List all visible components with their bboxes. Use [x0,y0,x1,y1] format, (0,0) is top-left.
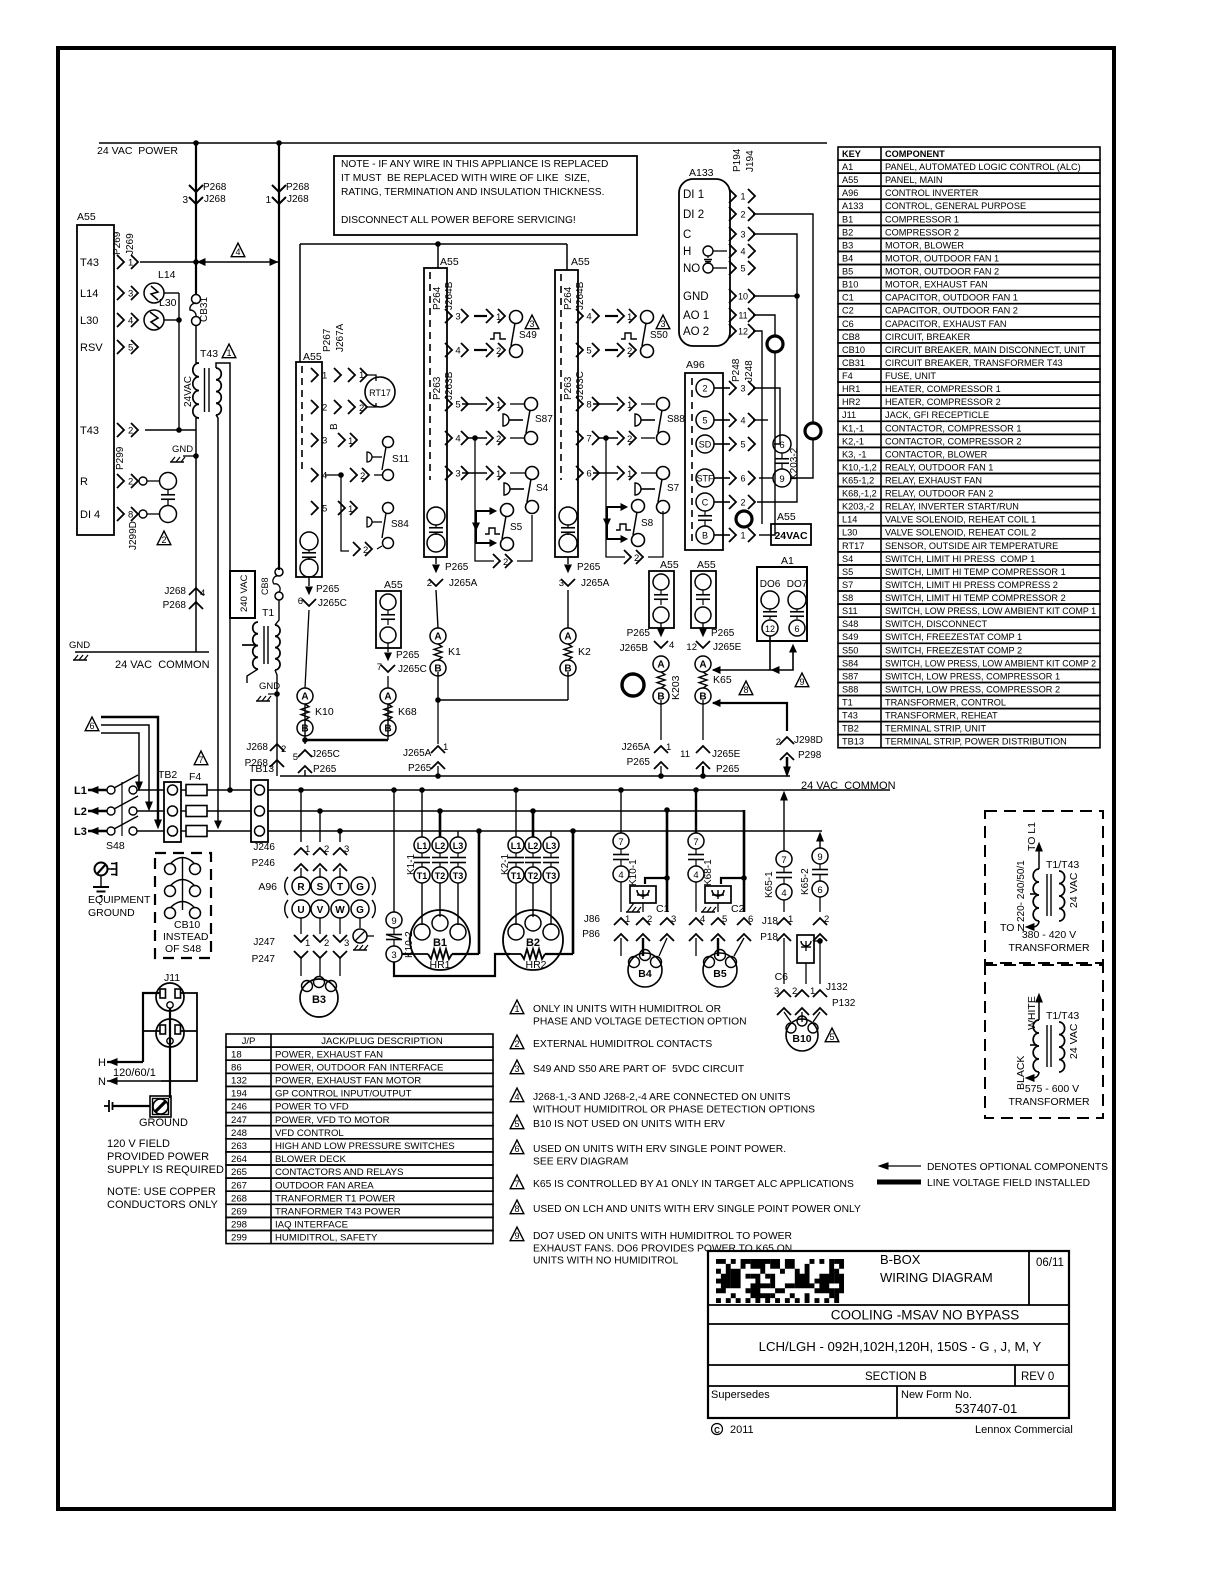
svg-text:3: 3 [774,986,779,997]
svg-text:9: 9 [817,852,822,863]
connector A96 pin 3 [714,387,730,389]
wire S5 to chevron2 [475,544,494,561]
svg-text:J299D: J299D [128,521,139,550]
switch S48 pole L3 [107,827,115,835]
svg-text:3: 3 [344,938,349,949]
wire CB8 to T1 [275,600,279,625]
svg-text:C: C [702,498,709,508]
svg-text:3: 3 [344,844,349,855]
svg-text:S5: S5 [510,522,523,533]
svg-text:5: 5 [322,504,327,515]
svg-text:J268: J268 [164,586,186,597]
svg-text:TO L1: TO L1 [1026,822,1038,851]
connector K1 J265A-1/P265 [431,746,445,753]
svg-text:J246: J246 [253,842,275,853]
connector A133 pin 4 [729,244,736,258]
svg-text:P18: P18 [760,932,778,943]
terminal A96 5 [696,411,714,429]
svg-text:2: 2 [496,346,501,357]
svg-text:8: 8 [586,400,591,411]
ground plug symbol [104,1105,109,1107]
wire A133 pin3 [753,234,797,502]
svg-text:GROUND: GROUND [88,907,135,919]
svg-text:J267A: J267A [335,323,346,352]
svg-text:T43: T43 [842,711,858,721]
wire K1 bottom [437,672,439,700]
note triangle 7 [510,1175,524,1189]
svg-text:3: 3 [182,195,188,206]
svg-text:S50: S50 [650,330,668,341]
svg-text:CAPACITOR, OUTDOOR FAN 1: CAPACITOR, OUTDOOR FAN 1 [885,293,1018,303]
svg-text:5: 5 [128,343,133,354]
wire horizontal y244 [300,243,567,245]
svg-text:5: 5 [740,440,745,450]
connector A96 pin 2 [714,501,730,503]
svg-text:L30: L30 [159,297,177,309]
terminal A96 2 [696,379,714,397]
svg-text:5: 5 [702,416,707,426]
svg-text:132: 132 [231,1076,247,1087]
wire K1-K2 link [438,699,568,701]
svg-text:P264: P264 [432,286,443,310]
svg-text:P246: P246 [252,858,276,869]
svg-text:CB8: CB8 [842,332,860,342]
svg-text:4: 4 [586,312,591,323]
terminal A96 STF [696,469,714,487]
svg-text:1: 1 [265,195,271,206]
svg-text:S87: S87 [842,671,858,681]
svg-text:A96: A96 [686,359,705,371]
svg-text:264: 264 [231,1154,248,1165]
svg-text:GND: GND [259,681,280,692]
wire T1 right bottom down [275,670,277,776]
svg-text:120 V FIELD: 120 V FIELD [107,1138,170,1150]
svg-text:L30: L30 [842,528,857,538]
svg-text:A55: A55 [842,175,858,185]
svg-text:K1,-1: K1,-1 [842,423,864,433]
svg-text:S84: S84 [842,658,858,668]
svg-text:POWER, EXHAUST FAN: POWER, EXHAUST FAN [275,1049,383,1060]
relay coil K1 [430,628,446,644]
svg-text:REALY, OUTDOOR FAN 1: REALY, OUTDOOR FAN 1 [885,462,993,472]
svg-text:6: 6 [748,914,753,925]
svg-text:MOTOR, OUTDOOR FAN 1: MOTOR, OUTDOOR FAN 1 [885,253,999,263]
switch S48 tie [121,782,123,836]
svg-text:T1: T1 [417,871,428,881]
svg-text:CAPACITOR, OUTDOOR FAN 2: CAPACITOR, OUTDOOR FAN 2 [885,306,1018,316]
svg-text:SWITCH, LIMIT HI TEMP COMPRESS: SWITCH, LIMIT HI TEMP COMPRESSOR 2 [885,593,1066,603]
svg-text:POWER, VFD TO MOTOR: POWER, VFD TO MOTOR [275,1115,390,1126]
wire bar1 to K1 [436,590,438,628]
connector bar2 pin 6 [576,466,583,480]
svg-text:GND: GND [683,291,709,303]
ground terminal square [150,1096,171,1117]
triangle note 7 [194,751,208,765]
connector K65 J265E-11/P265 [702,700,704,740]
svg-text:1: 1 [740,531,745,541]
svg-text:5: 5 [740,264,745,274]
svg-text:STF: STF [697,474,715,484]
svg-text:TB13: TB13 [842,737,864,747]
wire middle bar to K10 [305,610,309,688]
connector A133 pin 10 [729,289,736,303]
wire T43 secondary top to x230 [216,363,230,571]
svg-text:P268: P268 [286,182,310,193]
wire L1 bus [137,789,164,791]
switch S84 [338,501,345,515]
svg-text:3: 3 [455,469,460,480]
wire CB31 to T43 [195,325,197,363]
wire K2-1 feeds [513,787,519,793]
switch S8 circuit [632,500,645,513]
svg-text:S49: S49 [842,632,858,642]
triangle note 4 [231,243,245,257]
svg-text:AO 1: AO 1 [683,310,709,322]
wire J246-3 drop [337,828,343,834]
copyright [712,1424,723,1435]
connector bar2 pin 5 [576,343,583,357]
svg-text:7: 7 [781,855,786,866]
wire HR2 right up L3 [572,831,575,954]
svg-text:P194: P194 [732,148,743,172]
connector J298D-2/P298 [780,737,794,744]
svg-text:7: 7 [618,837,623,848]
svg-text:J298D: J298D [794,735,823,746]
svg-text:2: 2 [647,914,652,925]
svg-text:VALVE SOLENOID, REHEAT COIL 1: VALVE SOLENOID, REHEAT COIL 1 [885,515,1036,525]
circuit breaker CB8 [275,568,283,576]
svg-text:T43: T43 [200,348,218,360]
note triangle 8 [510,1200,524,1214]
legend optional components [886,1165,921,1167]
svg-text:24VAC: 24VAC [183,376,194,407]
svg-text:5: 5 [722,914,727,925]
wire L3 bus [137,830,164,832]
svg-text:2: 2 [514,1039,519,1049]
svg-text:A1: A1 [781,555,794,567]
svg-text:L3: L3 [74,826,87,838]
svg-text:248: 248 [231,1128,247,1139]
switch S88 circuit [593,403,618,405]
svg-text:A: A [657,660,664,671]
svg-text:SWITCH, LOW PRESS, COMPRESSOR: SWITCH, LOW PRESS, COMPRESSOR 2 [885,684,1060,694]
svg-text:HEATER, COMPRESSOR 2: HEATER, COMPRESSOR 2 [885,397,1001,407]
wire J246-1 drop [298,787,304,793]
svg-text:V: V [317,905,324,916]
svg-text:K1: K1 [448,646,461,658]
svg-text:EXTERNAL HUMIDITROL CONTACTS: EXTERNAL HUMIDITROL CONTACTS [533,1039,712,1050]
svg-text:3: 3 [740,230,745,240]
note triangle 9 [510,1227,524,1241]
svg-text:1: 1 [496,312,501,323]
connector bar2 pin 7 [576,431,583,445]
svg-text:K2: K2 [578,646,591,658]
svg-text:A55: A55 [571,256,590,268]
svg-text:A: A [564,632,571,643]
svg-text:3: 3 [529,319,534,329]
switch S87 circuit [462,403,487,405]
svg-text:T1/T43: T1/T43 [1046,859,1079,871]
svg-text:2: 2 [740,498,745,508]
svg-text:DO7: DO7 [787,579,808,590]
wire drop2 vertical [278,143,280,570]
wire A133 pin12 [753,331,762,524]
connector K203 P265-4/J265B [660,623,662,630]
svg-text:J/P: J/P [242,1036,256,1047]
wire bar2 to K2 [567,590,569,628]
wire C2 feed thick [743,810,746,912]
svg-text:299: 299 [231,1233,247,1244]
svg-text:K10-1: K10-1 [628,859,639,886]
svg-text:VFD CONTROL: VFD CONTROL [275,1128,344,1139]
svg-text:1: 1 [305,938,310,949]
svg-text:HR2: HR2 [842,397,860,407]
wire S84 link [341,475,349,551]
motor B10 [786,1019,818,1051]
svg-text:1: 1 [788,914,793,925]
svg-text:P263: P263 [432,376,443,400]
wire J11 left [143,993,160,1062]
note triangle 3 [510,1060,524,1074]
svg-text:24 VAC: 24 VAC [1068,1023,1080,1059]
motor B5 [703,953,737,987]
svg-text:TB2: TB2 [158,769,177,781]
svg-text:C6: C6 [775,971,789,983]
svg-text:T2: T2 [528,871,539,881]
svg-text:DENOTES OPTIONAL COMPONENTS: DENOTES OPTIONAL COMPONENTS [927,1162,1108,1173]
svg-text:1: 1 [128,258,133,269]
sensor circle R row [160,473,177,490]
svg-text:1: 1 [443,742,448,753]
svg-text:DI 2: DI 2 [683,209,704,221]
svg-text:B-BOX: B-BOX [880,1252,921,1267]
svg-text:KEY: KEY [842,149,861,159]
svg-text:K65: K65 [713,674,732,686]
wire pin2 lower [790,438,813,478]
connector A96 pin 4 [714,419,730,421]
svg-text:POWER, EXHAUST FAN MOTOR: POWER, EXHAUST FAN MOTOR [275,1076,421,1087]
svg-text:P265: P265 [716,764,740,775]
svg-text:Supersedes: Supersedes [711,1389,770,1401]
svg-text:S88: S88 [842,684,858,694]
wire T1 primary tap [242,644,256,646]
wire RT17 pin1 [334,368,341,382]
svg-text:7: 7 [198,755,203,765]
svg-text:OUTDOOR FAN AREA: OUTDOOR FAN AREA [275,1180,374,1191]
node junction drop2 [276,140,282,146]
wire A96 pin1 to 24VAC [759,534,771,536]
svg-text:1: 1 [810,986,815,997]
svg-text:RELAY, EXHAUST FAN: RELAY, EXHAUST FAN [885,476,982,486]
svg-text:JACK/PLUG DESCRIPTION: JACK/PLUG DESCRIPTION [321,1036,443,1047]
svg-text:5: 5 [293,752,298,763]
switch S48 pole L1 [107,786,115,794]
svg-text:RT17: RT17 [842,541,864,551]
wire K65-2 up arrow [819,835,821,848]
wire field L2 [101,725,149,803]
svg-text:COOLING -MSAV NO BYPASS: COOLING -MSAV NO BYPASS [831,1308,1020,1323]
svg-text:5: 5 [586,346,591,357]
svg-text:P264: P264 [563,286,574,310]
svg-text:3: 3 [455,312,460,323]
svg-text:SUPPLY IS REQUIRED: SUPPLY IS REQUIRED [107,1164,224,1176]
svg-text:3: 3 [660,319,665,329]
svg-text:18: 18 [231,1049,242,1060]
wire pin11 lower [771,352,775,535]
svg-text:T1/T43: T1/T43 [1046,1010,1079,1022]
svg-text:TRANSFORMER: TRANSFORMER [1008,942,1090,954]
svg-text:575 - 600 V: 575 - 600 V [1025,1083,1079,1095]
solenoid pair middle bar bottom [300,532,318,550]
table KEY/COMPONENT [838,147,1100,160]
svg-text:RELAY, OUTDOOR FAN 2: RELAY, OUTDOOR FAN 2 [885,489,993,499]
svg-text:246: 246 [231,1102,247,1113]
svg-text:CIRCUIT, BREAKER: CIRCUIT, BREAKER [885,332,971,342]
svg-text:FUSE, UNIT: FUSE, UNIT [885,371,936,381]
circuit breaker CB31 [192,295,201,304]
contact H-NO [703,246,713,256]
svg-text:24 VAC: 24 VAC [1068,872,1080,908]
wire L30 to vertical [164,319,179,321]
wire J11 right [161,993,197,1081]
svg-text:4: 4 [740,416,745,426]
svg-text:COMPONENT: COMPONENT [885,149,945,159]
wire 24 VAC common left [75,651,209,653]
svg-text:A: A [384,692,391,703]
relay coil K2 [560,628,576,644]
svg-text:11: 11 [738,311,747,321]
svg-text:P269: P269 [112,231,123,255]
connector J268-2/P268 [270,744,284,751]
svg-text:S84: S84 [391,519,409,530]
relay contact K10-2 [386,912,402,928]
svg-text:USED ON UNITS WITH ERV SINGLE: USED ON UNITS WITH ERV SINGLE POINT POWE… [533,1144,786,1155]
svg-text:P268: P268 [203,182,227,193]
wire J11 ground chain [169,1008,171,1098]
solenoid pair bar2 bottom [559,507,577,525]
svg-text:PHASE AND VOLTAGE DETECTION OP: PHASE AND VOLTAGE DETECTION OPTION [533,1016,747,1027]
svg-text:VALVE SOLENOID, REHEAT COIL 2: VALVE SOLENOID, REHEAT COIL 2 [885,528,1036,538]
svg-text:HR1: HR1 [429,959,450,971]
svg-text:TRANSFORMER: TRANSFORMER [1008,1096,1090,1108]
svg-text:G: G [356,905,364,916]
svg-text:P132: P132 [832,998,856,1009]
svg-text:3: 3 [671,914,676,925]
svg-text:6: 6 [740,474,745,484]
svg-text:S4: S4 [842,554,853,564]
svg-text:265: 265 [231,1167,247,1178]
wire K65-1 up arrow [783,794,785,851]
svg-text:CB10: CB10 [842,345,865,355]
svg-text:K68-1: K68-1 [703,859,714,886]
svg-text:4: 4 [455,346,460,357]
svg-text:C1: C1 [842,293,854,303]
svg-text:HUMIDITROL, SAFETY: HUMIDITROL, SAFETY [275,1233,378,1244]
svg-text:TERMINAL STRIP, UNIT: TERMINAL STRIP, UNIT [885,724,986,734]
svg-text:K65-1: K65-1 [764,871,775,898]
svg-text:RATING, TERMINATION AND INSULA: RATING, TERMINATION AND INSULATION THICK… [341,187,604,198]
wire L14 to vertical [124,261,145,263]
svg-text:7: 7 [586,434,591,445]
svg-text:CB8: CB8 [260,577,270,595]
connector A133 pin 1 [729,189,736,203]
svg-text:P268: P268 [163,600,187,611]
svg-text:K203,-2: K203,-2 [842,502,874,512]
svg-text:N: N [98,1076,106,1088]
svg-text:J265A: J265A [622,742,651,753]
ring optional A96 [736,511,752,527]
svg-text:J268: J268 [204,194,226,205]
svg-text:USED ON LCH AND UNITS WITH ERV: USED ON LCH AND UNITS WITH ERV SINGLE PO… [533,1204,861,1215]
svg-text:4: 4 [455,434,460,445]
svg-text:A96: A96 [842,188,858,198]
triangle note 9 mid [795,673,809,687]
svg-text:J247: J247 [253,937,275,948]
svg-text:A133: A133 [689,167,714,179]
svg-text:5: 5 [829,1032,834,1042]
capacitor A96 C-B [698,515,712,517]
svg-text:TRANSFORMER, REHEAT: TRANSFORMER, REHEAT [885,711,998,721]
svg-text:K65-1,2: K65-1,2 [842,476,874,486]
svg-text:CIRCUIT BREAKER, TRANSFORMER T: CIRCUIT BREAKER, TRANSFORMER T43 [885,358,1063,368]
connector P268-1/J268 drop2 [272,185,286,192]
motor B2 compressor [503,910,563,970]
equipment ground symbol [95,863,108,876]
triangle note 2 [157,531,171,545]
svg-text:B2: B2 [842,227,853,237]
svg-text:2: 2 [324,938,329,949]
svg-text:S8: S8 [641,518,654,529]
svg-text:J263B: J263B [444,371,455,400]
wire x230 through 240VAC box [229,618,231,790]
svg-text:537407-01: 537407-01 [955,1401,1017,1416]
svg-text:SWITCH, LOW PRESS, COMPRESSOR: SWITCH, LOW PRESS, COMPRESSOR 1 [885,671,1060,681]
svg-text:A96: A96 [258,881,277,893]
svg-text:CONTROL, GENERAL PURPOSE: CONTROL, GENERAL PURPOSE [885,201,1026,211]
svg-text:7: 7 [693,837,698,848]
svg-text:10: 10 [738,292,748,302]
svg-text:S48: S48 [106,840,125,852]
svg-text:B3: B3 [842,240,853,250]
svg-text:A: A [699,660,706,671]
connector DI4 small circle [139,510,147,518]
wire C1 pin2 [642,903,644,912]
svg-text:3: 3 [128,289,133,300]
svg-text:2: 2 [627,434,632,445]
wire field L1 [101,717,158,822]
svg-text:K2,-1: K2,-1 [842,436,864,446]
svg-text:B4: B4 [842,253,853,263]
svg-text:J86: J86 [584,914,601,925]
svg-text:SENSOR, OUTSIDE AIR TEMPERATUR: SENSOR, OUTSIDE AIR TEMPERATURE [885,541,1058,551]
note triangle 5 [510,1115,524,1129]
connector K203 J265A-1/P265 [660,700,662,740]
wire S8 to chevron2 [606,540,625,557]
svg-text:1: 1 [514,1004,519,1014]
svg-text:K65 IS CONTROLLED BY A1 ONLY I: K65 IS CONTROLLED BY A1 ONLY IN TARGET A… [533,1179,854,1190]
svg-text:CB31: CB31 [199,297,210,322]
wire field L3 [101,733,139,783]
wire feed middle bar [299,244,301,362]
svg-text:2: 2 [740,210,745,220]
svg-text:W: W [335,905,345,916]
box 380-420V transformer [985,811,1103,963]
svg-text:A55: A55 [777,511,796,523]
wire K10-2 to HR2 low path [394,954,510,976]
wire DO6 to K65 [769,636,771,670]
svg-text:T3: T3 [546,871,557,881]
connector bar1 pin 4 [445,343,452,357]
